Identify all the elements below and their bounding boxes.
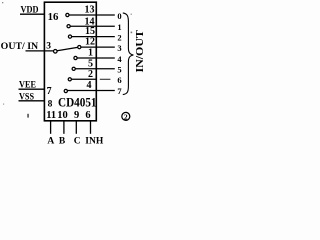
svg-text:12: 12 — [85, 37, 95, 48]
svg-text:6: 6 — [117, 75, 121, 85]
channel 4 contact — [74, 56, 77, 59]
svg-text:C: C — [74, 137, 81, 146]
wire channel 7 to pin 4 — [67, 90, 114, 92]
wire channel 5 to pin 5 — [75, 68, 115, 70]
wire C from pin 9 — [75, 121, 77, 134]
IC body CD4051 — [44, 2, 96, 121]
svg-text:0: 0 — [117, 11, 121, 21]
wire channel 1 to pin 14 — [70, 25, 115, 27]
svg-text:1: 1 — [88, 48, 93, 59]
svg-text:A: A — [47, 137, 54, 146]
svg-text:8: 8 — [48, 99, 53, 109]
channel 0 contact — [66, 13, 69, 16]
wire OUT/IN to pin3 — [26, 50, 54, 52]
wire VDD to pin16 — [20, 13, 45, 15]
svg-text:13: 13 — [85, 4, 95, 15]
channel 5 contact — [72, 67, 75, 70]
svg-text:5: 5 — [88, 58, 93, 69]
svg-text:2: 2 — [124, 112, 128, 121]
svg-text:6: 6 — [85, 110, 90, 121]
svg-text:3: 3 — [46, 41, 51, 51]
wire INH from pin 6 — [90, 121, 92, 134]
svg-text:2: 2 — [117, 32, 121, 42]
wire channel 0 to pin 13 — [69, 14, 115, 16]
channel 7 contact — [64, 89, 67, 92]
speck — [131, 32, 133, 34]
channel 2 contact — [68, 35, 71, 38]
svg-text:4: 4 — [117, 54, 122, 64]
svg-text:7: 7 — [117, 86, 122, 96]
wire A from pin 11 — [50, 121, 52, 134]
figure number circled 2 — [122, 112, 130, 120]
speck — [3, 104, 4, 105]
wire VEE to pin7 — [19, 88, 46, 90]
channel 1 contact — [67, 25, 70, 28]
svg-text:16: 16 — [48, 12, 59, 23]
switch wiper arm to channel 3 contact — [57, 47, 77, 50]
svg-text:3: 3 — [117, 43, 121, 53]
wire channel 3 to pin 12 — [81, 46, 115, 48]
svg-text:10: 10 — [57, 110, 68, 121]
svg-text:9: 9 — [74, 110, 79, 121]
svg-text:2: 2 — [88, 69, 93, 80]
switch common pivot circle (pin 3) — [54, 50, 58, 54]
channel 3 contact — [78, 46, 81, 49]
svg-text:B: B — [59, 137, 66, 146]
svg-text:11: 11 — [46, 110, 56, 121]
svg-text:CD4051: CD4051 — [58, 95, 97, 110]
wire channel 4 to pin 1 — [77, 57, 115, 59]
brace grouping IN/OUT channels — [123, 13, 134, 95]
speck — [27, 114, 29, 118]
svg-text:IN/OUT: IN/OUT — [135, 30, 146, 73]
speck — [131, 14, 132, 15]
svg-text:7: 7 — [47, 86, 52, 97]
svg-text:4: 4 — [87, 80, 92, 91]
wire channel 2 to pin 15 — [72, 36, 115, 38]
channel 6 contact — [68, 78, 71, 81]
svg-text:5: 5 — [117, 65, 121, 75]
wire VSS to pin8 — [19, 100, 46, 102]
speck — [2, 2, 3, 3]
svg-text:15: 15 — [85, 26, 95, 37]
wire channel 6 faded segment — [100, 78, 111, 80]
wire channel 6 to pin 2 — [71, 78, 96, 80]
svg-text:INH: INH — [85, 137, 104, 146]
svg-text:1: 1 — [117, 22, 121, 32]
wire B from pin 10 — [63, 121, 65, 134]
